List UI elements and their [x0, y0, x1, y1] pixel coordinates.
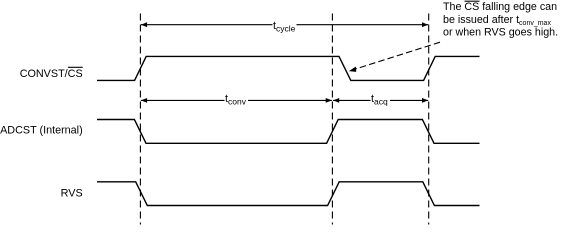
wire RVS waveform — [97, 182, 480, 206]
signal label CONVST/CS — [20, 67, 83, 80]
svg-text:CONVST/CS: CONVST/CS — [20, 68, 83, 80]
svg-text:tconv: tconv — [225, 93, 247, 107]
dashed timing line 1 (conversion start) — [139, 14, 141, 225]
dimension arrow t_acq — [333, 98, 428, 103]
svg-text:RVS: RVS — [61, 188, 83, 200]
svg-text:be issued after tconv_max: be issued after tconv_max — [443, 14, 551, 27]
dashed timing line 3 (end of cycle) — [428, 14, 430, 225]
wire CONVST/CS waveform — [97, 56, 480, 80]
svg-text:tacq: tacq — [371, 93, 388, 107]
svg-text:ADCST (Internal): ADCST (Internal) — [0, 125, 83, 137]
dashed timing line 2 (end of conversion) — [331, 14, 333, 225]
dimension arrow t_conv — [141, 98, 332, 103]
svg-text:The CS falling edge can: The CS falling edge can — [443, 1, 557, 13]
svg-text:tcycle: tcycle — [273, 20, 296, 34]
dimension arrow t_cycle — [141, 22, 428, 27]
annotation note text — [443, 1, 558, 38]
svg-text:or when RVS goes high.: or when RVS goes high. — [443, 26, 558, 38]
annotation callout dashed arrow — [349, 42, 440, 72]
wire ADCST (Internal) waveform — [97, 120, 480, 144]
